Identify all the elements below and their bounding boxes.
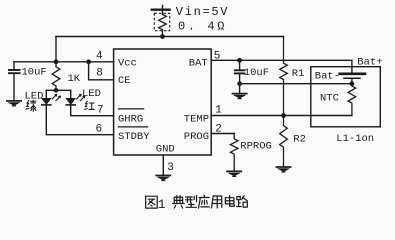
battery cell B1 <box>338 74 366 84</box>
svg-text:CE: CE <box>118 75 131 87</box>
ground (under R2) <box>276 167 292 172</box>
capacitor C-left 10uF <box>8 62 21 101</box>
LED D-red (anode drop) <box>65 90 85 105</box>
LED D-green (anode drop) <box>41 90 61 105</box>
junction: cell minus, Bat- rail, NTC <box>350 82 354 86</box>
svg-text:TEMP: TEMP <box>184 113 209 125</box>
resistor R1 (from Vin rail, crossing BAT rail) <box>280 37 288 116</box>
svg-text:PROG: PROG <box>184 131 209 143</box>
ground (IC GND pin 3) <box>155 176 171 181</box>
ground (under RPROG) <box>226 171 242 176</box>
battery pack box (Li-Ion) <box>311 67 381 127</box>
svg-text:8: 8 <box>96 68 103 80</box>
wire: TEMP pin 1 rail to NTC <box>211 115 352 117</box>
ground (under left 10uF) <box>6 101 22 106</box>
svg-text:6: 6 <box>96 124 103 136</box>
svg-text:1K: 1K <box>68 73 81 85</box>
wire: Bat- rail <box>240 83 352 85</box>
junction: 1K to LED bar <box>54 89 58 93</box>
dashed box around 0.4 ohm resistor <box>154 13 169 30</box>
wire: Bat+ drop into battery <box>351 60 353 72</box>
power source Vin terminal <box>151 6 171 10</box>
svg-text:R2: R2 <box>293 134 306 146</box>
junction: Vin resistor to top rail <box>161 35 165 39</box>
thermistor NTC <box>348 84 356 116</box>
svg-text:L1-1on: L1-1on <box>336 133 374 145</box>
wire: LED top bar <box>46 89 70 91</box>
svg-text:0. 4Ω: 0. 4Ω <box>178 20 227 34</box>
svg-text:R1: R1 <box>292 68 305 80</box>
resistor R 1K <box>52 62 60 91</box>
label red (CJK) <box>85 101 95 109</box>
svg-text:10uF: 10uF <box>244 67 269 79</box>
wire: BAT pin 5 rail to battery <box>211 59 352 61</box>
junction: TEMP rail to R1/R2 <box>282 114 286 118</box>
pin label STDBY (overlined) <box>118 127 150 143</box>
ground (under right 10uF) <box>232 94 248 99</box>
IC U1 body <box>114 49 212 155</box>
wire: red LED cathode to CHRG pin 7 <box>71 105 114 116</box>
svg-text:3: 3 <box>167 162 174 174</box>
svg-text:10uF: 10uF <box>22 67 47 79</box>
junction: BAT rail to right 10uF <box>238 58 242 62</box>
svg-text:Bat+: Bat+ <box>357 57 382 69</box>
capacitor C-right 10uF <box>234 60 246 83</box>
wire: CE drop and CE pin wire (pin 8) <box>89 62 114 80</box>
svg-text:1: 1 <box>158 197 166 212</box>
svg-text:7: 7 <box>97 105 104 117</box>
wire: green LED cathode to STDBY pin 6 <box>46 105 113 135</box>
svg-text:LED: LED <box>25 90 44 102</box>
junction: Vcc rail to CE drop <box>87 60 91 64</box>
resistor R2 <box>280 116 288 167</box>
svg-text:NTC: NTC <box>320 93 339 105</box>
svg-text:4: 4 <box>96 50 103 62</box>
wire: left drop from top rail to Vcc rail <box>55 37 57 62</box>
svg-text:RPROG: RPROG <box>240 141 272 153</box>
wire: ground stem under right 10uF <box>239 84 241 94</box>
wire: Vin top rail <box>56 36 284 38</box>
svg-text:STDBY: STDBY <box>118 131 150 143</box>
pin label CHRG (overlined) <box>118 109 145 126</box>
label green (CJK) <box>26 100 36 111</box>
junction: top rail to Vcc rail <box>54 60 58 64</box>
wire: Vcc rail (node Vcc) <box>14 61 114 63</box>
svg-text:LED: LED <box>82 88 101 100</box>
svg-text:BAT: BAT <box>189 57 208 69</box>
svg-text:1: 1 <box>215 105 222 117</box>
wire: PROG pin 2 to RPROG <box>211 133 234 135</box>
resistor RPROG <box>230 134 238 172</box>
svg-text:GHRG: GHRG <box>118 113 143 125</box>
wire: GND pin 3 stem <box>162 155 164 175</box>
junction: right 10uF to Bat- rail and ground <box>238 82 242 86</box>
svg-text:Vcc: Vcc <box>118 57 137 69</box>
svg-text:GND: GND <box>156 144 175 156</box>
resistor 0.4 ohm (input series resistor) <box>159 11 167 37</box>
svg-text:Vin=5V: Vin=5V <box>176 5 229 19</box>
caption: figure 1 typical application circuit (CJK drawn) <box>146 196 158 208</box>
svg-text:Bat-: Bat- <box>315 71 340 83</box>
